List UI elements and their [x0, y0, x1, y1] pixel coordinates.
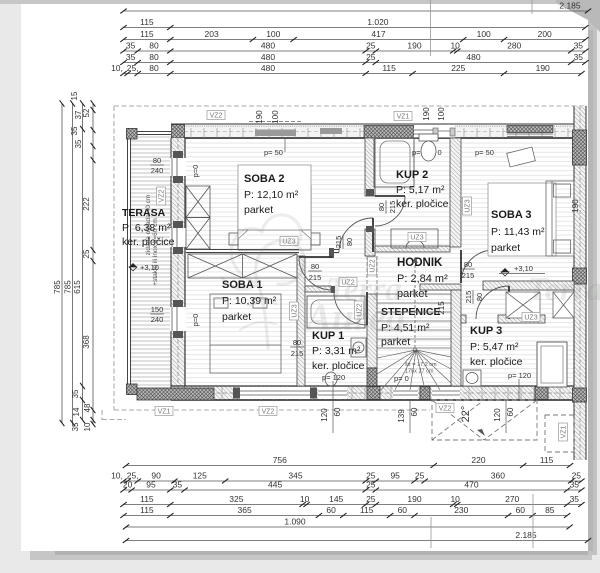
svg-text:145: 145 [329, 494, 343, 504]
svg-text:SOBA 2: SOBA 2 [244, 173, 285, 185]
right wall dark block 1 [573, 130, 587, 165]
svg-text:ker. pločice: ker. pločice [470, 356, 523, 368]
interior wall V2 SOBA1 east [297, 256, 305, 386]
left dimension column [53, 91, 95, 431]
svg-text:60: 60 [410, 407, 419, 416]
door arc KUP3 [476, 286, 509, 319]
toilet KUP2 [419, 134, 438, 161]
dimension row T-F [120, 63, 584, 76]
door arc SOBA3 [461, 250, 494, 283]
svg-text:p= 120: p= 120 [508, 371, 531, 380]
svg-text:22°: 22° [460, 406, 472, 423]
window top wall opening a [414, 125, 433, 138]
ref label UZ3 [280, 237, 298, 246]
svg-text:VZ2: VZ2 [262, 409, 275, 416]
svg-text:10,: 10, [111, 471, 123, 481]
terrace top parapet [137, 132, 171, 135]
svg-text:480: 480 [261, 52, 275, 62]
watermark text [303, 271, 600, 339]
terrace corner pillar bottom [127, 384, 138, 395]
svg-text:UZ3: UZ3 [410, 235, 423, 242]
bottom dim row 2.185 [123, 530, 591, 543]
svg-text:470: 470 [464, 480, 478, 490]
ref label VZ1 [155, 407, 173, 416]
svg-text:VZ2: VZ2 [210, 113, 223, 120]
door size label 150/240 [150, 305, 164, 324]
svg-text:zidana ograda 40 cm: zidana ograda 40 cm [145, 195, 152, 256]
washbasin KUP3 [463, 370, 481, 386]
shower KUP3 [537, 342, 567, 387]
dimension row B-3 [120, 480, 584, 493]
door size label 80/240 [150, 156, 164, 175]
window top wall W3 [433, 125, 455, 138]
washbasin KUP2 [391, 229, 438, 248]
svg-text:15: 15 [70, 91, 79, 100]
svg-text:P: 11,43 m²: P: 11,43 m² [491, 226, 545, 238]
svg-text:52: 52 [82, 108, 91, 117]
svg-text:35: 35 [126, 41, 136, 51]
svg-text:80: 80 [149, 63, 159, 73]
window bottom wall below KUP3 [432, 387, 460, 399]
svg-text:115: 115 [140, 505, 154, 515]
window top wall W2 sill [320, 128, 342, 134]
svg-text:šir = 17,2 cm: šir = 17,2 cm [405, 362, 437, 368]
svg-text:25,: 25, [127, 63, 139, 73]
svg-text:115: 115 [140, 494, 154, 504]
stairs STEPENICE treads [377, 294, 451, 348]
svg-text:368: 368 [82, 335, 91, 349]
svg-text:80: 80 [149, 41, 159, 51]
svg-text:p= 50: p= 50 [264, 148, 283, 157]
top wall pier middle [364, 126, 414, 139]
svg-text:UZ3: UZ3 [465, 199, 472, 212]
interior wall H4b SOBA3 bottom [483, 281, 574, 290]
window bottom wall below SOBA1 [233, 387, 317, 399]
dimension row B-5 [120, 505, 570, 518]
window top wall W1 sill [249, 122, 302, 137]
svg-text:60: 60 [506, 407, 515, 416]
ref label UZ3 [522, 313, 540, 322]
terrace deck TERASA [130, 134, 171, 388]
svg-text:60: 60 [333, 407, 342, 416]
svg-text:80: 80 [149, 52, 159, 62]
svg-text:35: 35 [574, 41, 584, 51]
stairs note text [394, 362, 437, 383]
svg-text:345: 345 [288, 471, 302, 481]
bottom rotated dim 120 b [493, 400, 515, 433]
terrace parapet note rotated [145, 195, 159, 286]
svg-text:25: 25 [82, 249, 91, 258]
ref label UZ3 [463, 197, 472, 215]
door size label 215/80 [334, 235, 354, 249]
svg-text:KUP 2: KUP 2 [396, 169, 428, 181]
svg-text:35: 35 [574, 52, 584, 62]
toilet KUP1 [325, 372, 337, 386]
svg-text:+3,10: +3,10 [140, 263, 159, 272]
exterior wall bottom [171, 386, 586, 400]
svg-text:190: 190 [407, 41, 421, 51]
svg-text:215: 215 [388, 201, 397, 214]
right wall axis dashed [579, 106, 581, 460]
svg-text:10: 10 [83, 422, 92, 431]
svg-text:615: 615 [73, 280, 82, 294]
svg-text:60: 60 [326, 505, 336, 515]
svg-text:480: 480 [261, 63, 275, 73]
right wall dark block 2 [573, 268, 587, 284]
bathtub KUP1 [307, 296, 365, 328]
closet niche X box [506, 292, 540, 318]
svg-text:80: 80 [311, 262, 319, 271]
interior wall H5 KUP1 top [305, 286, 335, 293]
svg-text:115: 115 [140, 17, 154, 27]
svg-text:HODNIK: HODNIK [397, 257, 443, 269]
wardrobe SOBA1 [188, 254, 297, 278]
bottom wall axis dashed [171, 392, 586, 394]
svg-text:115: 115 [360, 505, 374, 515]
svg-text:KUP 3: KUP 3 [470, 325, 502, 337]
svg-text:Aurea: Aurea [303, 296, 406, 339]
canopy dashed 22deg [432, 400, 537, 440]
ref label VZ2 [436, 404, 454, 413]
svg-text:80: 80 [464, 260, 472, 269]
page top edge shading [0, 0, 600, 4]
roof overhang dashed outline [102, 106, 585, 420]
door arc SOBA2 [339, 218, 373, 252]
svg-text:48: 48 [83, 403, 92, 412]
svg-text:p= 0: p= 0 [394, 374, 409, 383]
svg-text:222: 222 [82, 197, 91, 211]
page shadow bottom [30, 551, 592, 560]
door arc KUP1 [334, 292, 367, 325]
svg-text:190: 190 [536, 63, 550, 73]
svg-text:1.020: 1.020 [367, 17, 389, 27]
svg-text:85: 85 [545, 505, 555, 515]
svg-text:120: 120 [320, 408, 329, 422]
svg-text:10,: 10, [111, 63, 123, 73]
door arc SOBA1 [299, 257, 332, 290]
center line SOBA2 [284, 138, 286, 152]
top wall corner pier [172, 125, 185, 139]
svg-text:20: 20 [123, 480, 133, 490]
svg-text:P: 12,10 m²: P: 12,10 m² [244, 189, 299, 201]
svg-text:p=0: p=0 [191, 165, 200, 178]
svg-text:P: 2,84 m²: P: 2,84 m² [397, 273, 448, 285]
svg-text:215: 215 [291, 349, 304, 358]
svg-text:p=0: p=0 [191, 314, 200, 327]
dimension row T-B [120, 17, 588, 30]
svg-text:150: 150 [151, 305, 164, 314]
bathtub KUP2 [374, 138, 414, 187]
svg-text:95: 95 [146, 480, 156, 490]
ref label VZ2 [207, 111, 225, 120]
interior wall H1 between SOBA2 and SOBA1 [186, 250, 339, 253]
svg-text:parket: parket [244, 204, 273, 216]
room label KUP3 [470, 325, 523, 368]
stairs walk line [412, 257, 418, 352]
svg-text:270: 270 [505, 494, 519, 504]
svg-text:10: 10 [300, 494, 310, 504]
room label SOBA1 [222, 279, 277, 323]
svg-text:35: 35 [173, 480, 183, 490]
room label KUP1 [312, 330, 365, 372]
svg-text:240: 240 [151, 315, 164, 324]
svg-text:TERASA: TERASA [122, 207, 166, 219]
svg-text:P: 3,31 m²: P: 3,31 m² [312, 345, 361, 357]
svg-text:25: 25 [366, 494, 376, 504]
dark block bottom wall right [535, 387, 548, 400]
top wall pier right [507, 126, 553, 133]
bed SOBA1 [210, 294, 281, 373]
svg-text:100: 100 [266, 29, 280, 39]
svg-text:35: 35 [570, 480, 580, 490]
svg-text:P: 5,17 m²: P: 5,17 m² [396, 184, 445, 196]
interior wall H4a hodnik south [420, 284, 461, 290]
svg-text:VZ1: VZ1 [158, 409, 171, 416]
svg-text:80: 80 [345, 238, 354, 246]
vertical grid line bottom a [430, 517, 432, 548]
ref label VZ2 [259, 407, 277, 416]
dimension row T-C [120, 29, 588, 42]
svg-text:Terra: Terra [527, 271, 600, 308]
terrace left parapet [128, 134, 131, 392]
svg-text:0: 0 [438, 148, 442, 157]
svg-text:480: 480 [261, 41, 275, 51]
svg-text:756: 756 [273, 455, 287, 465]
svg-text:UZ3: UZ3 [524, 315, 537, 322]
bottom rotated dim 139 [397, 400, 419, 433]
svg-text:215: 215 [437, 301, 446, 315]
svg-text:80: 80 [153, 156, 161, 165]
svg-text:139: 139 [397, 409, 406, 423]
svg-text:VZ2: VZ2 [159, 189, 166, 202]
svg-text:80: 80 [293, 338, 301, 347]
svg-text:190: 190 [422, 107, 431, 121]
svg-text:p=: p= [412, 148, 421, 157]
svg-text:35: 35 [70, 126, 79, 135]
svg-text:2.185: 2.185 [515, 530, 537, 540]
svg-text:37: 37 [74, 110, 83, 119]
svg-text:+staklo ili inox h=60 cm: +staklo ili inox h=60 cm [152, 218, 159, 286]
svg-text:parket: parket [491, 242, 520, 254]
dimension row B-1 [123, 455, 573, 468]
door arc KUP2 [366, 189, 405, 232]
room label HODNIK [397, 257, 448, 300]
ref label VZ1 [559, 423, 568, 441]
svg-text:2.185: 2.185 [559, 1, 581, 11]
door size label 80/215 [308, 262, 322, 282]
floor level label p=120 KUP1 [322, 373, 345, 400]
door size label 80/215 [377, 200, 397, 214]
svg-text:p= 120: p= 120 [322, 373, 345, 382]
page shadow right [588, 8, 597, 555]
svg-text:60: 60 [516, 505, 526, 515]
svg-text:280: 280 [507, 41, 521, 51]
door left wall to terrace [170, 221, 186, 254]
svg-text:35: 35 [71, 389, 80, 398]
window top wall W4 [507, 134, 553, 137]
svg-text:220: 220 [471, 455, 485, 465]
svg-text:ker. pločice: ker. pločice [396, 198, 449, 210]
washbasin KUP1 [351, 338, 366, 357]
svg-text:175x 27 cm: 175x 27 cm [405, 369, 434, 375]
svg-text:P: 5,47 m²: P: 5,47 m² [470, 341, 519, 353]
svg-text:203: 203 [205, 29, 219, 39]
door jamb SOBA1 [329, 248, 334, 258]
dimension row T-E [120, 52, 588, 65]
svg-text:445: 445 [268, 480, 282, 490]
window bottom wall below KUP1 [318, 387, 347, 399]
closet niche box2 [553, 292, 574, 318]
interior wall V1 between SOBA2 and KUP2 [365, 138, 375, 256]
ref label VZ2 [157, 187, 166, 205]
svg-text:35: 35 [71, 422, 80, 431]
window left wall 150/240 [170, 300, 186, 338]
exterior wall right party wall [574, 106, 586, 460]
svg-text:ker. pločice: ker. pločice [312, 360, 365, 372]
room label SOBA3 box [488, 183, 556, 256]
svg-text:215: 215 [464, 291, 473, 304]
window bottom wall below stairs [393, 387, 418, 399]
ref label UZ2 [339, 278, 357, 287]
stairs winder fan [377, 350, 451, 390]
svg-text:215: 215 [309, 273, 322, 282]
svg-text:190: 190 [571, 199, 580, 213]
level mark terrace +3,10 [129, 263, 159, 272]
left wall axis dashed [177, 138, 179, 400]
svg-text:25: 25 [415, 471, 425, 481]
svg-text:785: 785 [64, 280, 73, 294]
top dim row 2.185 [120, 1, 591, 14]
vertical grid line top a [430, 0, 432, 56]
svg-text:360: 360 [491, 471, 505, 481]
dimension row B-4 [120, 494, 584, 507]
vertical grid line top b [531, 0, 533, 14]
svg-text:100: 100 [477, 29, 491, 39]
svg-text:230: 230 [454, 505, 468, 515]
svg-text:240: 240 [151, 166, 164, 175]
svg-text:190: 190 [407, 494, 421, 504]
svg-text:14: 14 [72, 407, 81, 416]
interior wall V4 between KUP2 and SOBA3 [450, 138, 461, 247]
level mark hodnik +3,10 [499, 264, 545, 276]
svg-text:25: 25 [366, 41, 376, 51]
exterior wall left [171, 138, 185, 400]
svg-text:215: 215 [462, 271, 475, 280]
room label SOBA3 text [491, 209, 545, 254]
svg-text:480: 480 [466, 52, 480, 62]
vertical grid line bottom b [532, 494, 534, 548]
svg-text:200: 200 [538, 29, 552, 39]
canopy label 22deg [460, 406, 485, 436]
door size label 80/215 [461, 260, 475, 280]
exterior wall top [171, 124, 586, 138]
window left wall 80/240 [170, 151, 186, 183]
svg-text:325: 325 [229, 494, 243, 504]
svg-text:1.090: 1.090 [284, 517, 306, 527]
svg-text:35: 35 [126, 52, 136, 62]
bottom rotated dim 120 a [320, 400, 342, 433]
watermark tree logo [222, 215, 304, 348]
svg-text:parket: parket [222, 311, 251, 323]
svg-text:100: 100 [437, 107, 446, 121]
svg-text:VZ2: VZ2 [439, 406, 452, 413]
desk SOBA3 [507, 147, 536, 167]
terrace bottom parapet crosshatch [137, 388, 214, 400]
svg-text:10: 10 [450, 494, 460, 504]
dimension row T-D [120, 41, 588, 54]
interior wall H3b KUP3 top [461, 315, 545, 323]
bed SOBA2 [229, 186, 320, 250]
room label KUP2 [396, 169, 449, 210]
ref label UZ3 [408, 233, 426, 242]
svg-text:25: 25 [366, 52, 376, 62]
dark block bottom wall [420, 387, 430, 400]
door size label 215/80 [464, 290, 484, 304]
svg-text:SOBA 3: SOBA 3 [491, 209, 532, 221]
svg-text:VZ1: VZ1 [397, 114, 410, 121]
interior wall H2 KUP2 bottom [375, 246, 450, 252]
shaft block bottom wall [367, 387, 380, 400]
room label TERASA [122, 207, 175, 248]
svg-text:215: 215 [334, 236, 343, 249]
bottom dim row 1.090 [123, 517, 573, 530]
ref label UZ2 [355, 301, 364, 319]
floor level label p=120 KUP3 [508, 371, 531, 400]
svg-text:10: 10 [450, 41, 460, 51]
page shadow top-right corner [556, 0, 600, 32]
door size label 80/215 [290, 338, 304, 358]
svg-text:p= 50: p= 50 [475, 148, 494, 157]
ref label UZ2 [368, 257, 377, 275]
svg-text:VZ1: VZ1 [561, 425, 568, 438]
svg-text:80: 80 [475, 293, 484, 301]
side dashed box right [545, 415, 574, 452]
interior wall V3 stairs west with shaft [367, 256, 377, 386]
dimension row B-2 [120, 471, 584, 484]
svg-text:115: 115 [140, 29, 154, 39]
room label STEPENICE [381, 306, 441, 348]
wardrobe SOBA2 [186, 186, 210, 249]
svg-text:100: 100 [271, 110, 280, 124]
svg-text:120: 120 [493, 408, 502, 422]
svg-text:80: 80 [377, 203, 386, 211]
svg-text:125: 125 [193, 471, 207, 481]
svg-text:115: 115 [540, 455, 554, 465]
svg-text:225: 225 [451, 63, 465, 73]
floor level KUP2 p=0 [412, 148, 442, 157]
right wall dark block 3 [573, 388, 587, 402]
interior wall V5 stairs east [451, 290, 461, 386]
svg-text:95: 95 [390, 471, 400, 481]
svg-text:785: 785 [53, 280, 62, 294]
svg-text:35: 35 [570, 494, 580, 504]
svg-text:417: 417 [371, 29, 385, 39]
building floor hatch [171, 124, 586, 400]
svg-text:35: 35 [74, 139, 83, 148]
svg-text:115: 115 [382, 63, 396, 73]
svg-text:60: 60 [398, 505, 408, 515]
ref label VZ1 [394, 112, 412, 121]
svg-text:190: 190 [255, 110, 264, 124]
svg-text:UZ3: UZ3 [292, 304, 299, 317]
terrace corner pillar top [127, 129, 138, 140]
svg-text:25: 25 [366, 480, 376, 490]
ref label UZ3 [290, 302, 299, 320]
bed SOBA3 [546, 181, 574, 256]
label box SOBA2 [238, 165, 311, 239]
svg-text:365: 365 [238, 505, 252, 515]
